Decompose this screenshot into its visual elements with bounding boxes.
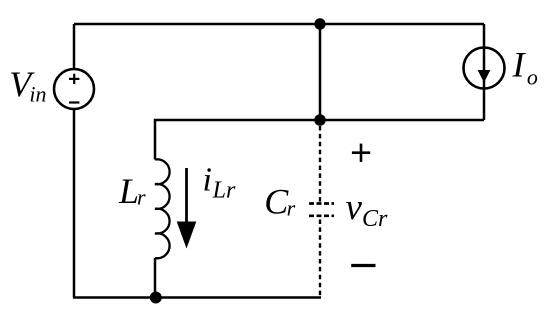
svg-text:r: r <box>137 184 146 209</box>
svg-text:o: o <box>527 65 538 90</box>
svg-text:Cr: Cr <box>362 206 388 232</box>
svg-text:v: v <box>346 187 363 228</box>
svg-text:C: C <box>264 182 289 222</box>
svg-text:L: L <box>118 171 139 211</box>
svg-text:Lr: Lr <box>212 178 236 204</box>
svg-text:r: r <box>287 196 296 221</box>
svg-text:in: in <box>29 82 46 107</box>
svg-text:i: i <box>203 161 212 198</box>
svg-text:I: I <box>512 45 527 85</box>
